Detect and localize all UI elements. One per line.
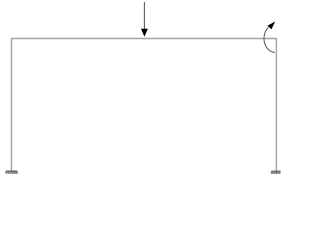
right support bar <box>271 170 281 172</box>
moment arc M <box>264 28 275 53</box>
load arrowhead <box>141 29 148 37</box>
load arrow P shaft <box>143 2 145 30</box>
left support hatching <box>6 172 18 174</box>
wire: frame outline (left column, top beam, right column) <box>12 39 277 172</box>
left support bar <box>6 170 18 172</box>
moment arrowhead <box>267 21 275 29</box>
right support hatching <box>271 172 280 174</box>
